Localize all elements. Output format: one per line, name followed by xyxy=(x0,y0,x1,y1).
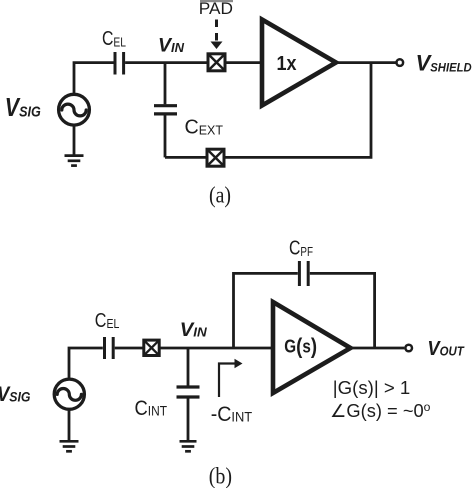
capacitor C_EL (b) xyxy=(105,337,114,359)
wire: (a) source to ground xyxy=(73,126,76,155)
svg-text:(b): (b) xyxy=(209,463,232,488)
node VIN (a): vertical wire down to C_EXT xyxy=(164,63,167,105)
svg-text:∠G(s) = ~0o: ∠G(s) = ~0o xyxy=(330,400,431,421)
op-amp U2: amplifier G(s) xyxy=(273,302,351,393)
source V_SIG (a) xyxy=(59,94,90,125)
capacitor C_EXT xyxy=(154,106,177,114)
wire: (b) amplifier output xyxy=(351,347,405,350)
svg-text:G(s): G(s) xyxy=(284,334,317,359)
wire: (a) bottom shield return xyxy=(165,63,371,158)
ground (b) source xyxy=(60,441,79,451)
op-amp U1: unity buffer 1x xyxy=(262,20,336,106)
svg-text:(a): (a) xyxy=(209,183,231,208)
svg-text:PAD: PAD xyxy=(199,0,233,18)
wire: (a) C_EL to amplifier input xyxy=(125,61,262,64)
pad (a) bottom, on shield return xyxy=(207,149,224,166)
wire: C_EXT down to shield return xyxy=(164,116,167,158)
wire: (a) main input wire from source to C_EL xyxy=(74,63,114,95)
ground C_INT xyxy=(180,441,197,451)
node V_OUT output terminal xyxy=(405,345,412,352)
PAD pointer dashed arrow xyxy=(211,20,223,50)
node VIN (b): vertical wire down to C_INT xyxy=(187,348,190,386)
capacitor C_EL (a) xyxy=(115,52,124,75)
ground (a) source xyxy=(65,156,84,166)
svg-text:1x: 1x xyxy=(277,53,297,75)
svg-text:|G(s)| > 1: |G(s)| > 1 xyxy=(333,378,411,398)
wire: C_INT down to ground xyxy=(187,399,190,441)
capacitor C_INT xyxy=(177,387,200,397)
wire: feedback loop left riser xyxy=(234,273,298,348)
wire: (b) C_EL to amplifier input xyxy=(115,347,273,350)
wire: (b) main input wire from source to C_EL xyxy=(69,348,103,379)
source V_SIG (b) xyxy=(54,379,84,409)
grey crop artifact above PAD xyxy=(200,0,233,2)
wire: (a) buffer output xyxy=(336,61,396,64)
wire: (b) source to ground xyxy=(68,411,71,441)
pad (b) on input line xyxy=(144,340,159,355)
-C_INT pointer arrow xyxy=(219,359,243,397)
pad (a) top, on input line xyxy=(208,54,225,71)
node V_SHIELD output terminal xyxy=(397,59,404,66)
capacitor C_PF xyxy=(299,261,308,286)
wire: feedback loop right side xyxy=(310,273,375,348)
